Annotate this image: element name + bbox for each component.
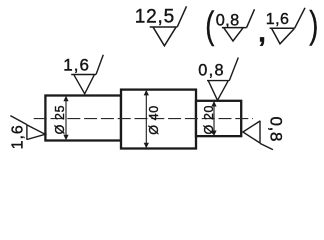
roughness symbol Ra 1,6 (in parentheses): [270, 8, 305, 44]
svg-text:0,8: 0,8: [216, 12, 240, 30]
shaft middle section outline: [121, 90, 196, 149]
dimension line Ø40: [144, 90, 149, 148]
svg-text:Ø 25: Ø 25: [53, 105, 67, 135]
roughness symbol 0,8 on right end face: [243, 121, 273, 150]
svg-text:1,6: 1,6: [63, 55, 90, 74]
shaft left section outline: [45, 96, 121, 141]
svg-text:0,8: 0,8: [267, 116, 286, 142]
dimension line Ø20: [211, 101, 216, 136]
roughness symbol 0,8 on top of right section: [207, 58, 238, 101]
roughness symbol 1,6 on top of left section: [71, 55, 103, 94]
svg-text:Ø 20: Ø 20: [202, 105, 216, 135]
centerline: [34, 118, 253, 120]
svg-text:0,8: 0,8: [198, 62, 225, 80]
dimension line Ø25: [63, 96, 68, 141]
roughness symbol 1,6 on left end face: [10, 116, 45, 140]
shaft right section outline: [196, 101, 241, 136]
svg-text:,: ,: [258, 17, 266, 48]
svg-text:1,6: 1,6: [9, 124, 26, 149]
roughness symbol Ra 0,8 (in parentheses): [222, 9, 255, 41]
svg-text:): ): [309, 4, 318, 46]
svg-text:Ø 40: Ø 40: [147, 105, 161, 135]
roughness symbol Ra 12,5 (general note): [150, 6, 187, 46]
svg-text:1,6: 1,6: [266, 11, 289, 28]
svg-text:12,5: 12,5: [135, 6, 175, 27]
svg-text:(: (: [205, 5, 214, 47]
